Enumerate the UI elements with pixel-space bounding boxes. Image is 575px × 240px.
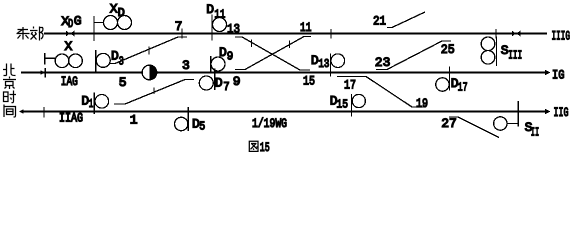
- shunting signal D13 (mast): [330, 54, 332, 77]
- crossover 9 diagonal: [235, 37, 311, 70]
- svg-text:IAG: IAG: [61, 74, 78, 89]
- svg-text:9: 9: [227, 49, 234, 63]
- shunting signal D17 (head): [436, 78, 449, 91]
- svg-text:23: 23: [375, 55, 391, 70]
- svg-text:1: 1: [130, 113, 138, 128]
- track A (IIIG line): [44, 33, 547, 35]
- 间: [3, 105, 5, 118]
- svg-text:III: III: [508, 49, 522, 63]
- siding 27 diagonal: [449, 117, 499, 138]
- crossover 23 diagonal: [376, 41, 451, 70]
- svg-text:G: G: [74, 13, 82, 28]
- shunting signal D15 (mast): [351, 94, 353, 117]
- svg-text:D: D: [68, 17, 73, 31]
- svg-text:11: 11: [300, 20, 312, 35]
- svg-text:IIIG: IIIG: [552, 28, 571, 43]
- svg-text:9: 9: [233, 74, 241, 89]
- departure signal SII (arm): [507, 123, 518, 125]
- svg-text:D: D: [219, 45, 227, 60]
- 京: [9, 77, 11, 79]
- departure signal SII (head): [494, 117, 507, 130]
- shunting signal D9 (mast): [210, 56, 212, 73]
- joint tick on crossover 13: [251, 40, 253, 48]
- arrow at IIG end: [545, 109, 551, 115]
- joint tick on track C: [43, 107, 45, 118]
- shunting signal D3 (mast): [95, 50, 97, 73]
- svg-text:3: 3: [182, 58, 190, 73]
- svg-text:X: X: [65, 39, 73, 54]
- switch 1 diagonal: [114, 80, 194, 105]
- crossover 13 diagonal: [235, 37, 310, 70]
- joint tick / D7 mast: [214, 69, 216, 91]
- crossover 19 diagonal: [337, 77, 424, 108]
- svg-text:D: D: [206, 2, 214, 17]
- bowtie joint XD G: [66, 31, 74, 37]
- crossover 7 diagonal: [110, 37, 187, 64]
- svg-text:7: 7: [223, 80, 229, 94]
- shunting signal D9 (head): [211, 57, 225, 71]
- svg-text:13: 13: [318, 57, 329, 71]
- svg-text:IIG: IIG: [554, 105, 569, 120]
- shunting signal D5 (head): [175, 117, 188, 130]
- 时: [4, 92, 9, 102]
- shunting signal D11 (mast): [211, 15, 213, 41]
- departure signal SIII (mast): [496, 37, 498, 67]
- svg-text:25: 25: [441, 42, 455, 57]
- svg-text:21: 21: [373, 14, 386, 29]
- shunting signal D3 (head): [96, 53, 110, 67]
- svg-text:5: 5: [119, 75, 127, 90]
- shunting signal D7 (head): [199, 76, 213, 90]
- figure caption 图15: [249, 141, 258, 151]
- svg-text:15: 15: [260, 140, 270, 155]
- home signal X (mast): [44, 53, 46, 65]
- station name 北京时间 (vertical, drawn strokes): [3, 64, 16, 118]
- svg-text:13: 13: [227, 21, 240, 36]
- joint tick on crossover 7: [148, 47, 150, 55]
- arrow at IG end: [545, 70, 551, 76]
- svg-text:17: 17: [344, 77, 356, 92]
- shunting signal D1 (mast): [93, 93, 95, 115]
- shunting signal D1 (head): [95, 95, 109, 109]
- arrow at left end of track C: [19, 109, 24, 114]
- svg-text:IIAG: IIAG: [59, 111, 83, 126]
- home signal XD (heads): [104, 16, 118, 30]
- svg-text:11: 11: [214, 7, 225, 21]
- track circuit disc (half filled): [142, 65, 157, 80]
- svg-text:5: 5: [199, 120, 205, 134]
- shunting signal D17 (mast): [448, 67, 450, 91]
- siding 21 diagonal: [387, 12, 425, 28]
- home signal XD (mast): [93, 16, 95, 41]
- joint tick on crossover 9: [289, 41, 291, 49]
- svg-text:X: X: [110, 1, 118, 16]
- departure signal SII (mast): [517, 101, 519, 127]
- home signal X (heads): [55, 54, 69, 68]
- joint tick near IIIG end: [495, 29, 497, 39]
- joint tick on switch 1 diagonal: [153, 88, 155, 95]
- svg-text:15: 15: [336, 97, 348, 111]
- svg-text:7: 7: [175, 19, 183, 34]
- joint tick at switch 7: [181, 29, 183, 39]
- shunting signal D13 (head): [331, 54, 345, 68]
- track B (IG line): [21, 72, 547, 74]
- track C (IIG line): [23, 111, 547, 113]
- entry arrow + joint on track B: [41, 70, 46, 75]
- station name 东郊 (drawn strokes): [17, 27, 44, 41]
- svg-text:27: 27: [441, 116, 457, 131]
- svg-text:II: II: [531, 125, 539, 139]
- shunting signal D15 (head): [352, 94, 365, 107]
- 北: [6, 64, 8, 76]
- svg-text:D: D: [215, 76, 223, 91]
- svg-text:19: 19: [416, 96, 428, 111]
- svg-text:D: D: [118, 6, 125, 20]
- bowtie joint at IIIG end: [512, 31, 520, 37]
- svg-text:15: 15: [303, 73, 315, 88]
- svg-text:1/19WG: 1/19WG: [252, 116, 287, 131]
- svg-text:17: 17: [458, 80, 468, 94]
- joint tick at switch 11: [330, 29, 332, 39]
- shunting signal D11 (head): [213, 18, 227, 32]
- departure signal SIII (heads): [481, 37, 495, 51]
- svg-text:IG: IG: [552, 67, 565, 82]
- shunting signal D5 (mast): [187, 107, 189, 131]
- svg-text:1: 1: [89, 97, 94, 111]
